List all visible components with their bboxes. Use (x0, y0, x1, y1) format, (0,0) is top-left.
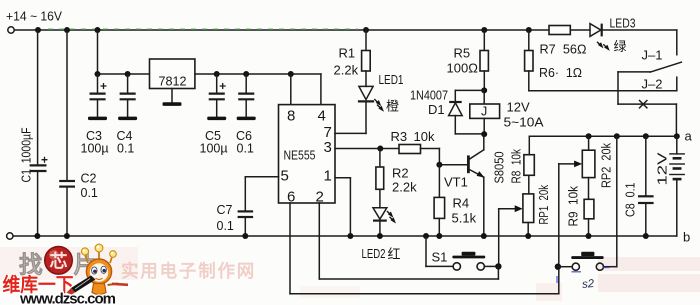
node S1 right junction (495, 263, 501, 269)
svg-text:1: 1 (324, 168, 332, 185)
svg-text:5~10A: 5~10A (504, 115, 544, 130)
svg-text:R4: R4 (453, 196, 470, 211)
capacitor C7 (238, 211, 254, 236)
node relay top junction (481, 87, 487, 93)
resistor R3 (399, 145, 439, 165)
wire R6 line to J-2 (529, 77, 677, 91)
switch S1 (426, 236, 495, 270)
label LED2 red (362, 246, 401, 262)
capacitor C5 (209, 74, 226, 117)
connector X mark (639, 100, 647, 108)
wire LED3 down to J-1 (676, 30, 678, 55)
RP2 wiper (559, 161, 582, 294)
svg-text:C1 1000µF: C1 1000µF (20, 127, 34, 182)
label R3 10k (391, 129, 435, 144)
svg-text:100Ω: 100Ω (447, 61, 479, 76)
watermark pink patches bottom right (300, 257, 700, 301)
svg-text:LED1: LED1 (379, 72, 404, 87)
watermark green dashed line (48, 28, 358, 30)
node output line junctions (214, 71, 294, 77)
svg-text:LED3: LED3 (610, 16, 636, 31)
node a row junctions (586, 133, 680, 139)
svg-text:芯: 芯 (50, 251, 68, 272)
ground bar C5 (207, 117, 226, 121)
wire bottom negative rail (13, 235, 677, 237)
capacitor C3 (90, 74, 107, 117)
resistor R6 (525, 30, 533, 91)
resistor R8 (524, 136, 534, 194)
label C6 0.1 (236, 129, 254, 156)
svg-text:J: J (481, 105, 487, 119)
diode D1 1N4007 (449, 102, 463, 134)
node pin3 junction (377, 146, 383, 152)
svg-text:0.1: 0.1 (81, 186, 98, 200)
svg-text:R7 56Ω: R7 56Ω (540, 42, 587, 57)
svg-text:2.2k: 2.2k (392, 180, 417, 195)
svg-text:10k: 10k (414, 129, 435, 144)
label C4 0.1 (117, 129, 135, 156)
capacitor C2 (59, 30, 75, 236)
wire rail to 7812 input line (98, 30, 150, 74)
svg-text:橙: 橙 (386, 99, 399, 114)
svg-text:R8 10k: R8 10k (509, 149, 524, 184)
node relay bottom junction (481, 131, 487, 137)
op-amp U1 NE555 (279, 105, 336, 203)
label C5 100u (200, 129, 228, 156)
wire node a row (529, 135, 677, 137)
wire J-1 to X line (617, 72, 619, 104)
svg-text:0.1: 0.1 (217, 219, 234, 233)
LED2 arrows (387, 211, 396, 224)
svg-text:7812: 7812 (159, 74, 187, 89)
svg-text:RP2 20k: RP2 20k (599, 143, 614, 188)
svg-text:D1: D1 (428, 102, 445, 117)
watermark mascot (67, 244, 129, 304)
ground bar C6 (237, 117, 256, 121)
wire pin6 down (289, 203, 291, 294)
svg-text:0.1: 0.1 (117, 142, 134, 156)
LED2 (373, 208, 387, 236)
transistor Q1 VT1 (439, 134, 484, 236)
label R4 5.1k (452, 196, 477, 226)
svg-text:RP1 20k: RP1 20k (536, 185, 551, 225)
wire pin6 loop (290, 293, 559, 295)
watermark blue marks (557, 268, 610, 284)
svg-text:红: 红 (388, 247, 401, 262)
svg-text:4: 4 (318, 108, 326, 125)
LED1 arrows (374, 99, 384, 112)
ground bar C4 (118, 117, 137, 121)
node VT1 base junction (436, 162, 442, 168)
svg-text:S1: S1 (432, 250, 448, 265)
svg-text:LED2: LED2 (362, 246, 386, 261)
svg-text:R3: R3 (391, 129, 408, 144)
watermark xin circle (45, 246, 73, 274)
svg-text:找: 找 (19, 252, 43, 278)
svg-text:J–2: J–2 (642, 77, 663, 92)
svg-text:+14 ~ 16V: +14 ~ 16V (6, 9, 62, 24)
node bottom rail junctions (34, 233, 648, 239)
ground 7812 (163, 89, 182, 106)
output terminal bottom (7, 233, 13, 239)
input terminal + (8, 27, 14, 33)
svg-text:C7: C7 (217, 203, 233, 217)
label C7 0.1 (217, 203, 234, 233)
potentiometer RP1 (523, 194, 534, 236)
LED3 (590, 24, 677, 37)
wire pin3 (335, 148, 399, 150)
wire 7812 output line (195, 73, 321, 75)
RP1 wiper (499, 205, 523, 266)
resistor R7 (549, 26, 570, 35)
svg-text:a: a (685, 129, 693, 144)
resistor R4 (434, 165, 445, 236)
label R2 2.2k (392, 166, 417, 195)
wire pin5 to C7 (245, 177, 278, 211)
svg-text:12V: 12V (507, 100, 530, 115)
relay contact J-1 (618, 62, 681, 72)
label C2 0.1 (81, 172, 98, 201)
svg-text:5.1k: 5.1k (452, 211, 477, 226)
wire pin7 (335, 132, 366, 134)
svg-text:www.dzsc.com: www.dzsc.com (19, 291, 116, 305)
wire X line down to node a (675, 104, 677, 136)
wire R7 to LED3 (570, 29, 590, 31)
svg-text:R9 10k: R9 10k (566, 186, 581, 227)
svg-text:绿: 绿 (614, 39, 627, 54)
svg-text:J–1: J–1 (642, 48, 663, 63)
battery 12V (669, 136, 685, 236)
svg-text:0.1: 0.1 (237, 142, 254, 156)
label R1 2.2k (334, 46, 359, 78)
svg-text:R5: R5 (454, 46, 471, 61)
label C3 100u (81, 129, 109, 156)
node S2 left junction (555, 264, 561, 270)
node top rail junctions (35, 27, 532, 33)
svg-text:C8 0.1: C8 0.1 (623, 183, 638, 218)
resistor R5 (480, 30, 488, 90)
svg-text:5: 5 (281, 168, 289, 185)
svg-text:VT1: VT1 (444, 175, 468, 190)
LED1 (358, 86, 374, 133)
node 7812 input line junctions (95, 71, 131, 77)
wire X line (618, 103, 676, 105)
relay J coil (470, 90, 500, 134)
wire top positive rail (14, 29, 549, 31)
capacitor C4 (120, 74, 136, 117)
svg-text:12V: 12V (655, 152, 670, 185)
svg-text:R1: R1 (339, 46, 356, 61)
svg-text:8: 8 (287, 108, 295, 125)
svg-text:s2: s2 (582, 278, 596, 291)
svg-text:2.2k: 2.2k (334, 63, 359, 78)
potentiometer RP2 (582, 136, 595, 199)
capacitor C8 (638, 136, 654, 236)
resistor R2 (376, 149, 384, 208)
wire S2 right column (616, 136, 618, 266)
resistor R1 (362, 30, 371, 86)
capacitor C1 (30, 30, 48, 236)
svg-text:6: 6 (287, 189, 295, 206)
svg-text:NE555: NE555 (284, 148, 316, 163)
wire pin1 to ground (335, 178, 350, 236)
wire pin2 down (318, 203, 320, 279)
watermark pink tint left (0, 247, 138, 280)
switch S2 (558, 252, 617, 271)
LED3 arrows (597, 42, 610, 51)
svg-text:100µ: 100µ (200, 142, 228, 156)
svg-text:100µ: 100µ (81, 142, 109, 156)
svg-text:b: b (683, 230, 690, 245)
svg-text:R2: R2 (392, 166, 409, 181)
svg-text:R6· 1Ω: R6· 1Ω (539, 65, 582, 80)
wire D1 top (455, 90, 484, 101)
resistor R9 (584, 199, 594, 236)
svg-text:1N4007: 1N4007 (410, 88, 448, 103)
ground bar C3 (88, 117, 107, 121)
wire pin8 pin4 supply (291, 74, 321, 105)
svg-text:S8050: S8050 (492, 152, 507, 184)
wire D1 bottom (455, 133, 484, 135)
wire pin2 loop (319, 266, 498, 279)
label R5 100ohm (447, 46, 479, 76)
regulator 7812 (150, 59, 195, 89)
capacitor C6 (238, 74, 254, 117)
svg-text:实用电子制作网: 实用电子制作网 (121, 261, 256, 281)
svg-text:3: 3 (324, 139, 332, 156)
svg-text:C2: C2 (81, 172, 97, 186)
